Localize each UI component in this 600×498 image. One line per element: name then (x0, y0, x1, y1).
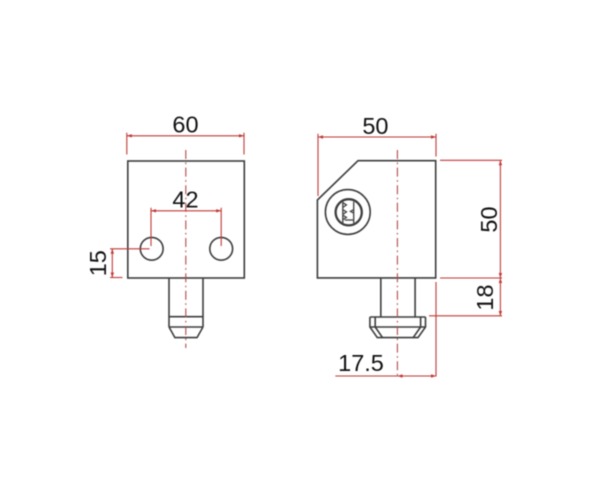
svg-text:15: 15 (85, 250, 111, 276)
svg-text:50: 50 (476, 206, 502, 232)
svg-text:60: 60 (172, 111, 198, 137)
svg-text:17.5: 17.5 (338, 350, 384, 376)
svg-text:18: 18 (472, 284, 498, 310)
svg-text:42: 42 (172, 187, 198, 213)
svg-text:50: 50 (362, 113, 388, 139)
